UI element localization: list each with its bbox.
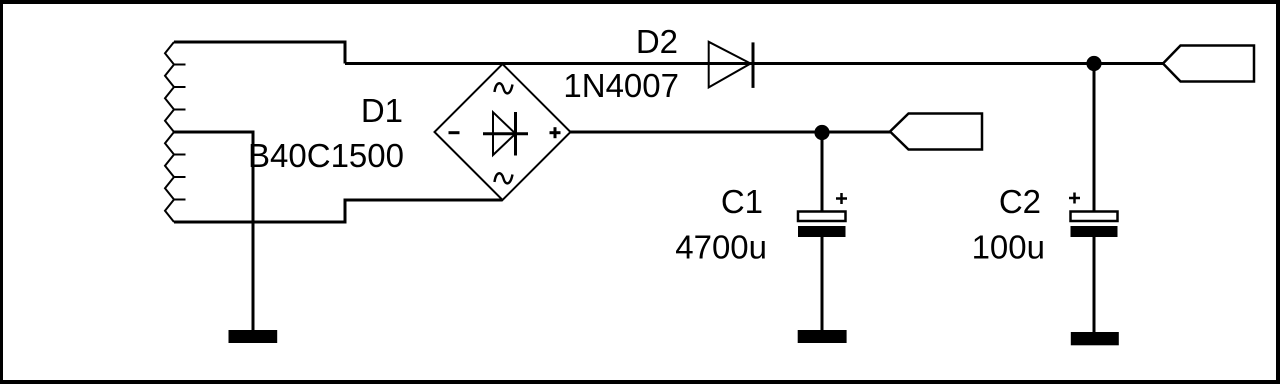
border frame left [0, 0, 3, 384]
wire center tap to ground [174, 132, 253, 331]
wire C2 top lead [1093, 64, 1096, 213]
svg-text:C1: C1 [721, 183, 763, 220]
ground symbol C1 [798, 330, 847, 343]
diode D2 cathode bar [752, 42, 755, 88]
capacitor C2 bottom plate [1071, 226, 1118, 237]
border frame bottom [0, 380, 1280, 384]
D1 AC tilde top [495, 83, 513, 93]
connector output mid [890, 114, 982, 150]
svg-text:D2: D2 [636, 23, 678, 60]
capacitor C1 top plate [798, 212, 846, 222]
transformer winding tick 4 [173, 154, 186, 156]
svg-text:D1: D1 [361, 92, 403, 129]
capacitor C1 bottom plate [798, 226, 846, 237]
ground symbol center tap [229, 330, 278, 343]
transformer winding tick 1 [173, 64, 186, 66]
junction node C2 [1086, 56, 1101, 71]
D1 AC tilde bottom [495, 173, 513, 183]
junction node C1 [814, 125, 829, 140]
diode D2 triangle [709, 42, 751, 88]
border frame top [0, 0, 1280, 4]
wire C1 bottom lead [821, 237, 824, 331]
svg-text:100u: 100u [972, 229, 1045, 266]
transformer winding tick 5 [173, 176, 186, 178]
wire bottom AC from winding to bridge [174, 200, 503, 222]
svg-text:1N4007: 1N4007 [563, 67, 679, 104]
svg-text:C2: C2 [999, 183, 1041, 220]
wire C1 top lead [821, 132, 824, 212]
svg-text:B40C1500: B40C1500 [248, 137, 404, 174]
wire C2 bottom lead [1093, 237, 1096, 333]
D1 internal diode through line [483, 132, 528, 135]
D1 minus polarity mark [449, 131, 460, 134]
wire top rail to output [345, 62, 1163, 65]
wire mid rail bridge plus to connector [571, 131, 891, 134]
bridge rectifier D1 body [435, 64, 571, 200]
transformer winding tick 6 [173, 199, 186, 201]
svg-text:4700u: 4700u [675, 229, 767, 266]
transformer winding tick 2 [173, 86, 186, 88]
connector output top [1163, 46, 1254, 82]
ground symbol C2 [1071, 332, 1119, 345]
transformer TR1 winding [165, 42, 174, 222]
capacitor C2 plus mark [1069, 193, 1080, 204]
border frame right [1276, 0, 1280, 384]
D1 internal diode cathode bar [514, 112, 517, 156]
capacitor C2 top plate [1071, 212, 1118, 222]
capacitor C1 plus mark [836, 193, 847, 204]
wire top AC from winding to step [174, 42, 345, 64]
D1 internal diode triangle [493, 112, 516, 155]
D1 plus polarity mark [550, 127, 561, 138]
transformer winding tick 3 [173, 109, 186, 111]
